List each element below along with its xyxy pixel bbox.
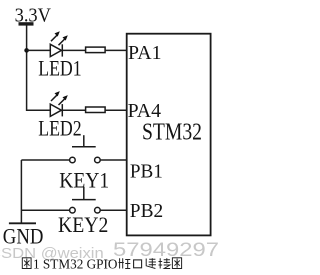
- caption CJK char 口: [134, 260, 142, 268]
- LED LED1: [50, 35, 65, 57]
- svg-text:PB1: PB1: [130, 162, 163, 183]
- wire: LED2 cathode to resistor: [62, 109, 85, 111]
- wire: KEY2 right contact to PB2 pin: [100, 209, 127, 211]
- switch KEY1: [70, 135, 101, 163]
- node junction dot LED1 branch: [24, 48, 29, 53]
- wire: rail to KEY2 left contact: [21, 209, 69, 211]
- wire: resistor to PA4 pin: [105, 109, 127, 111]
- resistor R1: [86, 47, 106, 53]
- wire: resistor to PA1 pin: [105, 49, 127, 51]
- caption CJK char 图: [172, 258, 181, 269]
- svg-text:57949297: 57949297: [113, 240, 219, 261]
- wire: 3.3V rail vertical with corner to LED2 row: [27, 26, 51, 111]
- svg-text:LED2: LED2: [38, 116, 81, 141]
- wire: junction to LED1 anode: [27, 49, 51, 51]
- caption CJK char 图: [22, 258, 31, 269]
- svg-text:PA1: PA1: [128, 42, 162, 64]
- wire: KEY1 right contact to PB1 pin: [100, 159, 127, 161]
- svg-text:1 STM32 GPIO: 1 STM32 GPIO: [33, 256, 118, 271]
- LED LED2: [50, 95, 65, 117]
- LED2 arrow heads: [55, 91, 60, 96]
- svg-text:KEY2: KEY2: [58, 212, 108, 237]
- caption CJK char 接: [159, 258, 171, 268]
- MCU U1 STM32 box: [127, 34, 211, 236]
- svg-text:STM32: STM32: [142, 119, 202, 145]
- wire: key rail vertical GND to KEY1: [20, 160, 22, 223]
- ground: [9, 222, 36, 224]
- svg-text:PB2: PB2: [130, 201, 163, 222]
- wire: rail to KEY1 left contact: [21, 159, 69, 161]
- wire: LED1 cathode to resistor: [62, 49, 85, 51]
- power bar 3.3V rail symbol: [19, 22, 34, 25]
- resistor R2: [86, 107, 106, 113]
- caption CJK char 端: [119, 258, 131, 268]
- LED1 arrow heads: [55, 31, 60, 36]
- svg-text:GND: GND: [3, 223, 44, 248]
- caption CJK char 连: [146, 258, 156, 268]
- switch KEY2: [70, 187, 101, 213]
- svg-text:LED1: LED1: [38, 56, 81, 81]
